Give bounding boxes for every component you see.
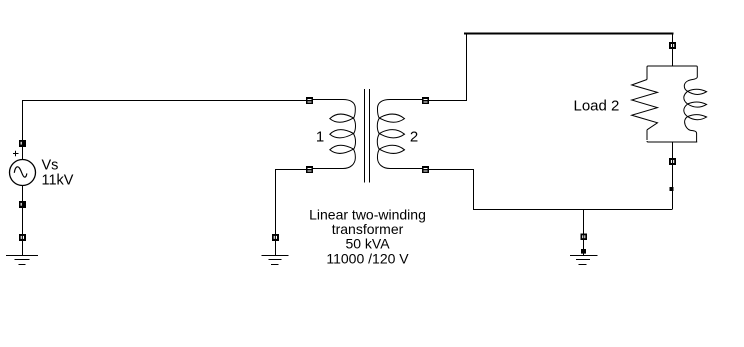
svg-text:transformer: transformer	[332, 221, 404, 237]
winding 1 outline	[313, 100, 356, 169]
winding 2 loop a	[379, 114, 404, 122]
port ground left	[19, 234, 26, 241]
AC source Vs circle	[10, 160, 36, 186]
wire: branch bottom to load port	[672, 142, 674, 158]
svg-text:50 kVA: 50 kVA	[345, 236, 390, 252]
port Vs - terminal	[19, 201, 26, 208]
label 1	[316, 128, 324, 145]
wire: winding1 bottom to mid ground	[276, 170, 307, 235]
wire: rail stub to load top port	[672, 35, 674, 43]
port load top	[669, 42, 676, 49]
port transformer winding2 top	[422, 97, 429, 104]
inductor loop b	[688, 102, 707, 107]
port transformer winding1 bottom	[306, 166, 313, 173]
wire: top rail (thick)	[464, 33, 674, 35]
wire: load bottom down	[672, 165, 674, 209]
junction square on load wire	[670, 187, 674, 191]
ground left	[6, 256, 38, 265]
wire: ground stub left	[22, 241, 24, 255]
inductor coil outline	[684, 77, 698, 142]
wire: source top to transformer primary top	[23, 101, 307, 141]
port load bottom	[669, 158, 676, 165]
transformer core	[365, 89, 370, 183]
port transformer winding1 top	[306, 97, 313, 104]
inductor loop c	[688, 115, 707, 120]
wire: source bottom stub	[22, 186, 24, 202]
resistor zigzag	[632, 80, 658, 130]
label 2	[410, 128, 418, 145]
junction dot right ground	[581, 249, 586, 254]
svg-text:1: 1	[316, 128, 324, 145]
sine wave inside source	[14, 167, 26, 177]
+ polarity mark	[13, 151, 19, 157]
svg-text:Linear two-winding: Linear two-winding	[309, 206, 426, 222]
load frame top	[647, 66, 697, 80]
wire: port to source circle	[22, 147, 24, 160]
winding 2 outline	[377, 100, 422, 169]
port transformer winding2 bottom	[422, 166, 429, 173]
svg-text:2: 2	[410, 128, 418, 145]
label Load 2	[574, 98, 620, 115]
winding 1 loop a	[330, 114, 354, 122]
ground mid	[262, 256, 289, 265]
wire: load top port to branch	[672, 49, 674, 66]
winding 2 loop b	[379, 130, 404, 138]
winding 1 loop c	[330, 145, 354, 153]
winding 1 loop b	[330, 130, 354, 138]
wire: source to ground port	[22, 208, 24, 234]
svg-text:Load 2: Load 2	[574, 98, 620, 115]
wire: ground stub mid	[275, 241, 277, 255]
wire: bottom rail to right ground port	[583, 210, 585, 234]
port ground right	[581, 234, 588, 241]
resistor bottom lead	[646, 130, 648, 140]
wire: winding2 top to top rail	[429, 34, 467, 101]
load frame bottom	[647, 141, 697, 142]
wire: winding2 bottom to bottom rail	[429, 170, 673, 210]
winding 2 loop c	[379, 145, 404, 153]
label Vs 11kV	[42, 158, 74, 189]
svg-text:11000 /120 V: 11000 /120 V	[326, 251, 409, 267]
port Vs + terminal	[19, 140, 26, 147]
transformer caption	[309, 206, 426, 266]
ground right	[570, 256, 598, 265]
svg-text:11kV: 11kV	[42, 172, 74, 188]
port ground mid	[272, 234, 279, 241]
svg-text:Vs: Vs	[42, 158, 59, 174]
wire: ground stub right	[583, 240, 585, 256]
inductor loop a	[688, 89, 707, 94]
